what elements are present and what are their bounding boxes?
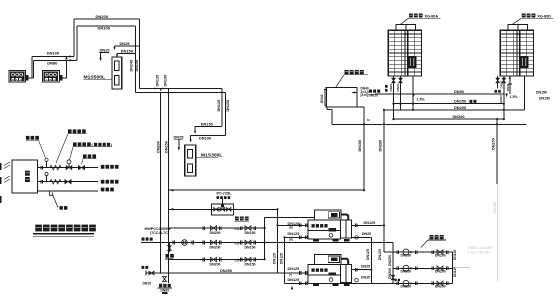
chiller2 left outlet DN125 floor main	[285, 278, 394, 290]
expansion tank MIS500L	[112, 57, 122, 89]
row3 valve group A	[203, 257, 221, 266]
AHU box side ticks	[4, 162, 10, 183]
label collector	[336, 70, 369, 88]
label DN100 top	[98, 26, 111, 31]
svg-text:DN25: DN25	[500, 80, 504, 88]
svg-text:i=: i=	[367, 118, 370, 122]
label metal hose	[56, 129, 87, 163]
cooling tower 1	[388, 25, 421, 76]
bypass valve box PC-72SL	[212, 204, 234, 215]
water collector box	[324, 88, 357, 107]
row2 valve group B	[235, 240, 256, 249]
chiller unit 1	[308, 210, 351, 241]
svg-text:DN150: DN150	[245, 245, 256, 249]
svg-text:DN200: DN200	[210, 231, 221, 235]
bus pipe DN200 y119	[394, 114, 504, 119]
svg-text:DN50: DN50	[454, 89, 464, 94]
tank pipe DN25	[113, 46, 139, 50]
pipe DN100 into tank2	[190, 136, 226, 143]
svg-text:DN40: DN40	[506, 83, 510, 91]
riser bottom drain assembly	[158, 276, 173, 294]
tower1 drain end cluster	[369, 90, 381, 98]
pump group left header	[392, 243, 394, 284]
svg-text:DN125: DN125	[453, 250, 457, 260]
label condensate water	[101, 188, 114, 192]
AHU pipe 1 chilled return	[37, 165, 98, 169]
label DN100	[199, 136, 211, 141]
chiller right riser x371	[370, 237, 372, 283]
tower1 riser column C	[412, 76, 414, 111]
svg-text:DN125: DN125	[288, 278, 300, 282]
slope annotation 1.5%	[412, 94, 425, 102]
svg-text:DN150: DN150	[201, 122, 213, 127]
tower riser labels DN150	[536, 91, 550, 101]
svg-text:DN125: DN125	[217, 100, 221, 112]
svg-text:DN125: DN125	[288, 232, 300, 236]
label DN125 vertical at junction	[155, 75, 159, 87]
label DN150 vertical	[135, 60, 139, 72]
svg-text:DN250: DN250	[220, 268, 232, 273]
cooling pump row 2	[393, 265, 453, 273]
label DN150	[121, 49, 133, 54]
tower1 drain labels	[385, 83, 400, 91]
svg-text:HB8.1 CxbxWP: HB8.1 CxbxWP	[468, 246, 493, 250]
svg-text:DN150: DN150	[401, 253, 412, 257]
pipe DN150 into tank2	[194, 126, 222, 134]
cooling pump row 3	[393, 280, 453, 288]
label chilled return water	[101, 165, 119, 169]
label DN200 vertical x384	[379, 140, 383, 152]
label DN25	[120, 41, 131, 46]
label DN150 vertical x364	[358, 140, 362, 152]
label HWPCC1000W	[145, 227, 172, 235]
svg-text:DN25: DN25	[361, 264, 370, 268]
title AHU connection detail	[33, 225, 96, 237]
svg-text:DN125: DN125	[378, 249, 382, 260]
chiller2 right outlet DN125	[351, 264, 371, 271]
chiller2 left inlet DN125	[288, 267, 308, 277]
riser DN150 long vertical	[165, 89, 169, 284]
svg-text:DN40: DN40	[320, 94, 324, 103]
tower2 drain column C	[508, 76, 512, 94]
pump row 1 pipe	[169, 227, 265, 229]
svg-text:C3-: C3-	[235, 242, 240, 246]
down pair right of top pipes	[136, 19, 140, 92]
edge scan marks	[0, 163, 2, 203]
svg-text:DN125: DN125	[366, 249, 370, 260]
controller box B2	[43, 71, 63, 83]
row1 valve group B	[235, 226, 256, 235]
svg-text:DN200: DN200	[157, 141, 161, 153]
bypass stem and label	[217, 192, 233, 208]
label condensate pipe	[235, 217, 250, 222]
tank top pipe DN150	[116, 53, 136, 57]
svg-text:XG-80A: XG-80A	[425, 14, 439, 18]
svg-text:DN150: DN150	[245, 231, 256, 235]
svg-text:DN150: DN150	[358, 140, 362, 152]
chiller1 right port DN25	[351, 232, 371, 239]
tower2 slope annotation	[505, 94, 518, 100]
svg-text:DN125: DN125	[279, 253, 283, 264]
svg-text:DN200: DN200	[435, 270, 446, 274]
expansion tank MIS300L	[185, 145, 196, 176]
label DN150 vertical at junction	[164, 75, 168, 87]
controller box B1	[9, 71, 28, 83]
row2 drain valve assembly	[165, 243, 174, 260]
tower1 riser-drain column A	[392, 76, 395, 120]
svg-text:DN150: DN150	[121, 49, 133, 54]
chiller unit 2	[308, 255, 351, 286]
svg-text:DN125: DN125	[155, 75, 159, 87]
chiller1 left inlet DN125	[278, 222, 309, 230]
svg-text:DN200: DN200	[379, 140, 383, 152]
svg-text:DN25: DN25	[362, 232, 371, 236]
svg-text:DN40: DN40	[396, 83, 400, 91]
svg-text:DN100: DN100	[98, 26, 111, 31]
tower2 drain column B	[495, 76, 501, 93]
AHU pipe 2 chilled supply	[37, 179, 98, 184]
label DN125 vertical right	[217, 100, 221, 112]
label pressure gauge	[26, 136, 46, 158]
stop valve on pipe1	[78, 165, 84, 170]
bus pipe DN250 y104	[394, 99, 504, 104]
chiller riser A x277	[276, 208, 278, 273]
svg-text:DN150: DN150	[165, 141, 169, 153]
tower1 drain column B	[399, 76, 402, 110]
chiller2 right port	[355, 275, 370, 282]
svg-text:DN150: DN150	[226, 100, 230, 112]
svg-text:DN200: DN200	[388, 268, 392, 279]
label DN125 vertical right1	[453, 250, 457, 260]
label chilled supply water	[101, 180, 119, 184]
riser DN125 long vertical	[157, 92, 161, 273]
collector right port arrow	[351, 91, 357, 93]
svg-text:(*): (*)	[289, 273, 292, 277]
svg-text:DN100: DN100	[47, 51, 60, 56]
riser pair up to top lines	[74, 19, 77, 60]
label DN40 vertical near x504	[499, 95, 503, 103]
label DN125 vertical x371	[366, 249, 370, 260]
flow arrow at B2 junction	[65, 56, 68, 60]
tower2 label XG-80D	[512, 14, 553, 25]
vertical drop x497 DN150	[496, 119, 498, 281]
label DN150 vertical x497	[491, 138, 495, 150]
bottom left branch valve	[142, 266, 161, 286]
watermark text	[455, 202, 497, 268]
pipe pair DN100/DN80 horizontal	[32, 57, 77, 61]
svg-text:DN150: DN150	[491, 138, 495, 150]
svg-text:DN40: DN40	[499, 95, 503, 103]
svg-text:DN25: DN25	[361, 275, 370, 279]
chiller1 right outlet DN125	[351, 221, 384, 227]
AHU box fan cabinet	[12, 160, 37, 193]
svg-text:DN150: DN150	[164, 75, 168, 87]
svg-text:[2×6]: [2×6]	[361, 93, 369, 97]
wire from B2 up to pipe pair	[62, 60, 66, 78]
svg-text:DN200: DN200	[453, 114, 465, 119]
label electric valve long	[70, 142, 113, 160]
label DN150	[201, 122, 213, 127]
flow arrows on riser top	[69, 55, 72, 61]
row2 valve group A	[203, 240, 221, 249]
svg-text:DN125: DN125	[453, 267, 457, 277]
chiller1 left outlet DN125	[285, 232, 309, 242]
main riser x384 DN200	[383, 109, 385, 252]
pump group label	[421, 235, 446, 248]
svg-text:DN200: DN200	[435, 285, 446, 289]
tower2 riser-drain column A	[502, 76, 505, 119]
bottom main DN250	[161, 268, 308, 273]
svg-text:DN150: DN150	[536, 91, 547, 95]
svg-text:DN150: DN150	[539, 97, 550, 101]
wire from B1 to riser pair	[28, 57, 33, 78]
pump group right header	[452, 252, 454, 283]
pipe pair horizontal DN125/DN150	[136, 89, 226, 93]
pump row 2 pipe with makeup - cooling main	[141, 242, 393, 244]
svg-text:1.5%: 1.5%	[510, 95, 519, 99]
electric two-way valve	[66, 160, 72, 170]
svg-text:C3-: C3-	[235, 259, 240, 263]
riser links to pump group	[384, 251, 393, 253]
label DN240 vertical	[130, 60, 134, 72]
label DN100	[47, 51, 60, 56]
bypass valves	[214, 208, 231, 211]
row3 valve group B	[235, 257, 256, 266]
left group header vertical to chiller	[264, 218, 315, 261]
svg-text:DN240: DN240	[130, 60, 134, 72]
svg-text:DN25: DN25	[389, 83, 393, 91]
svg-text:C3-: C3-	[235, 227, 240, 231]
svg-text:DN125: DN125	[364, 221, 376, 225]
svg-text:DN200: DN200	[210, 245, 221, 249]
down pair right side	[222, 89, 226, 136]
cooling pump row 1	[393, 249, 453, 257]
label i slope	[367, 118, 370, 122]
svg-text:DN250: DN250	[388, 255, 392, 266]
collector port labels	[361, 87, 369, 98]
label DN150 vertical right	[226, 100, 230, 112]
svg-text:DN100: DN100	[199, 136, 211, 141]
svg-text:DN200: DN200	[210, 262, 221, 266]
collector to riser connector	[357, 106, 364, 108]
svg-text:DN150: DN150	[135, 60, 139, 72]
branch arrows at junction	[155, 87, 170, 95]
label DN125 vertical right2	[453, 267, 457, 277]
cooling tower 2	[500, 25, 533, 76]
label DN250 vertical left	[388, 255, 392, 266]
AHU pipe 3 condensate	[37, 190, 98, 192]
label DN125 vertical B	[279, 253, 283, 264]
drain DN20 with arrow	[99, 48, 109, 62]
bus pipe DN200 y109	[384, 105, 525, 110]
svg-text:DN25: DN25	[120, 41, 131, 46]
pipe through bypass y209	[169, 208, 278, 211]
svg-text:DN80: DN80	[47, 60, 58, 65]
tower2 drain labels	[500, 80, 510, 91]
condensate trap	[50, 191, 68, 210]
svg-text:DN25: DN25	[174, 134, 185, 139]
svg-text:DN200: DN200	[435, 253, 446, 257]
svg-text:1.5%: 1.5%	[417, 97, 426, 101]
pump row 3 pipe	[169, 259, 265, 261]
svg-text:DN150: DN150	[401, 285, 412, 289]
top pipe pair DN200/DN100	[74, 19, 140, 26]
row2 water meter	[142, 238, 194, 246]
label stop valve	[82, 154, 97, 164]
svg-text:DN200: DN200	[96, 14, 109, 19]
svg-text:(R): (R)	[289, 238, 293, 242]
svg-text:DN200: DN200	[454, 105, 466, 110]
drain DN25 with arrow	[174, 134, 185, 151]
pipe to collector y190	[169, 189, 365, 192]
svg-text:DN20: DN20	[100, 48, 110, 53]
pressure gauge symbols	[45, 158, 48, 182]
main pipe y124 DN250	[332, 123, 526, 125]
chiller riser B x284	[283, 236, 285, 283]
svg-text:DN150: DN150	[245, 262, 256, 266]
tower1 label XG-80A	[400, 14, 441, 25]
collector drain hook	[327, 107, 332, 125]
vertical connector x364	[363, 107, 365, 191]
chiller right riser x383	[383, 224, 385, 226]
svg-text:1-7E2-1B1-2E: 1-7E2-1B1-2E	[467, 251, 490, 255]
bus pipe DN50 y94	[375, 89, 505, 94]
junction dots right bus	[496, 103, 505, 126]
label DN80	[47, 60, 58, 65]
label DN200 top	[96, 14, 109, 19]
label MIS500L	[84, 74, 113, 80]
label DN200 vertical left	[388, 268, 392, 279]
label MIS300L	[196, 152, 222, 158]
label DN125 vertical A	[272, 253, 276, 264]
svg-text:(R): (R)	[289, 226, 293, 230]
pump group bottom drain	[391, 275, 400, 281]
svg-text:DN150: DN150	[493, 202, 497, 214]
row1 valve group A	[203, 226, 221, 235]
svg-text:DN25: DN25	[143, 282, 152, 286]
svg-text:DN125: DN125	[288, 267, 300, 271]
svg-text:DN250: DN250	[454, 99, 466, 104]
svg-text:XG-80D: XG-80D	[537, 14, 551, 18]
svg-text:DN150: DN150	[401, 270, 412, 274]
label DN40 vertical	[320, 94, 324, 103]
svg-text:PC-72SL: PC-72SL	[217, 192, 233, 196]
tower2 riser x524	[524, 76, 526, 110]
svg-text:(7CC-B-7C): (7CC-B-7C)	[150, 231, 169, 235]
svg-text:DN125: DN125	[272, 253, 276, 264]
label DN125 vertical x383	[378, 249, 382, 260]
